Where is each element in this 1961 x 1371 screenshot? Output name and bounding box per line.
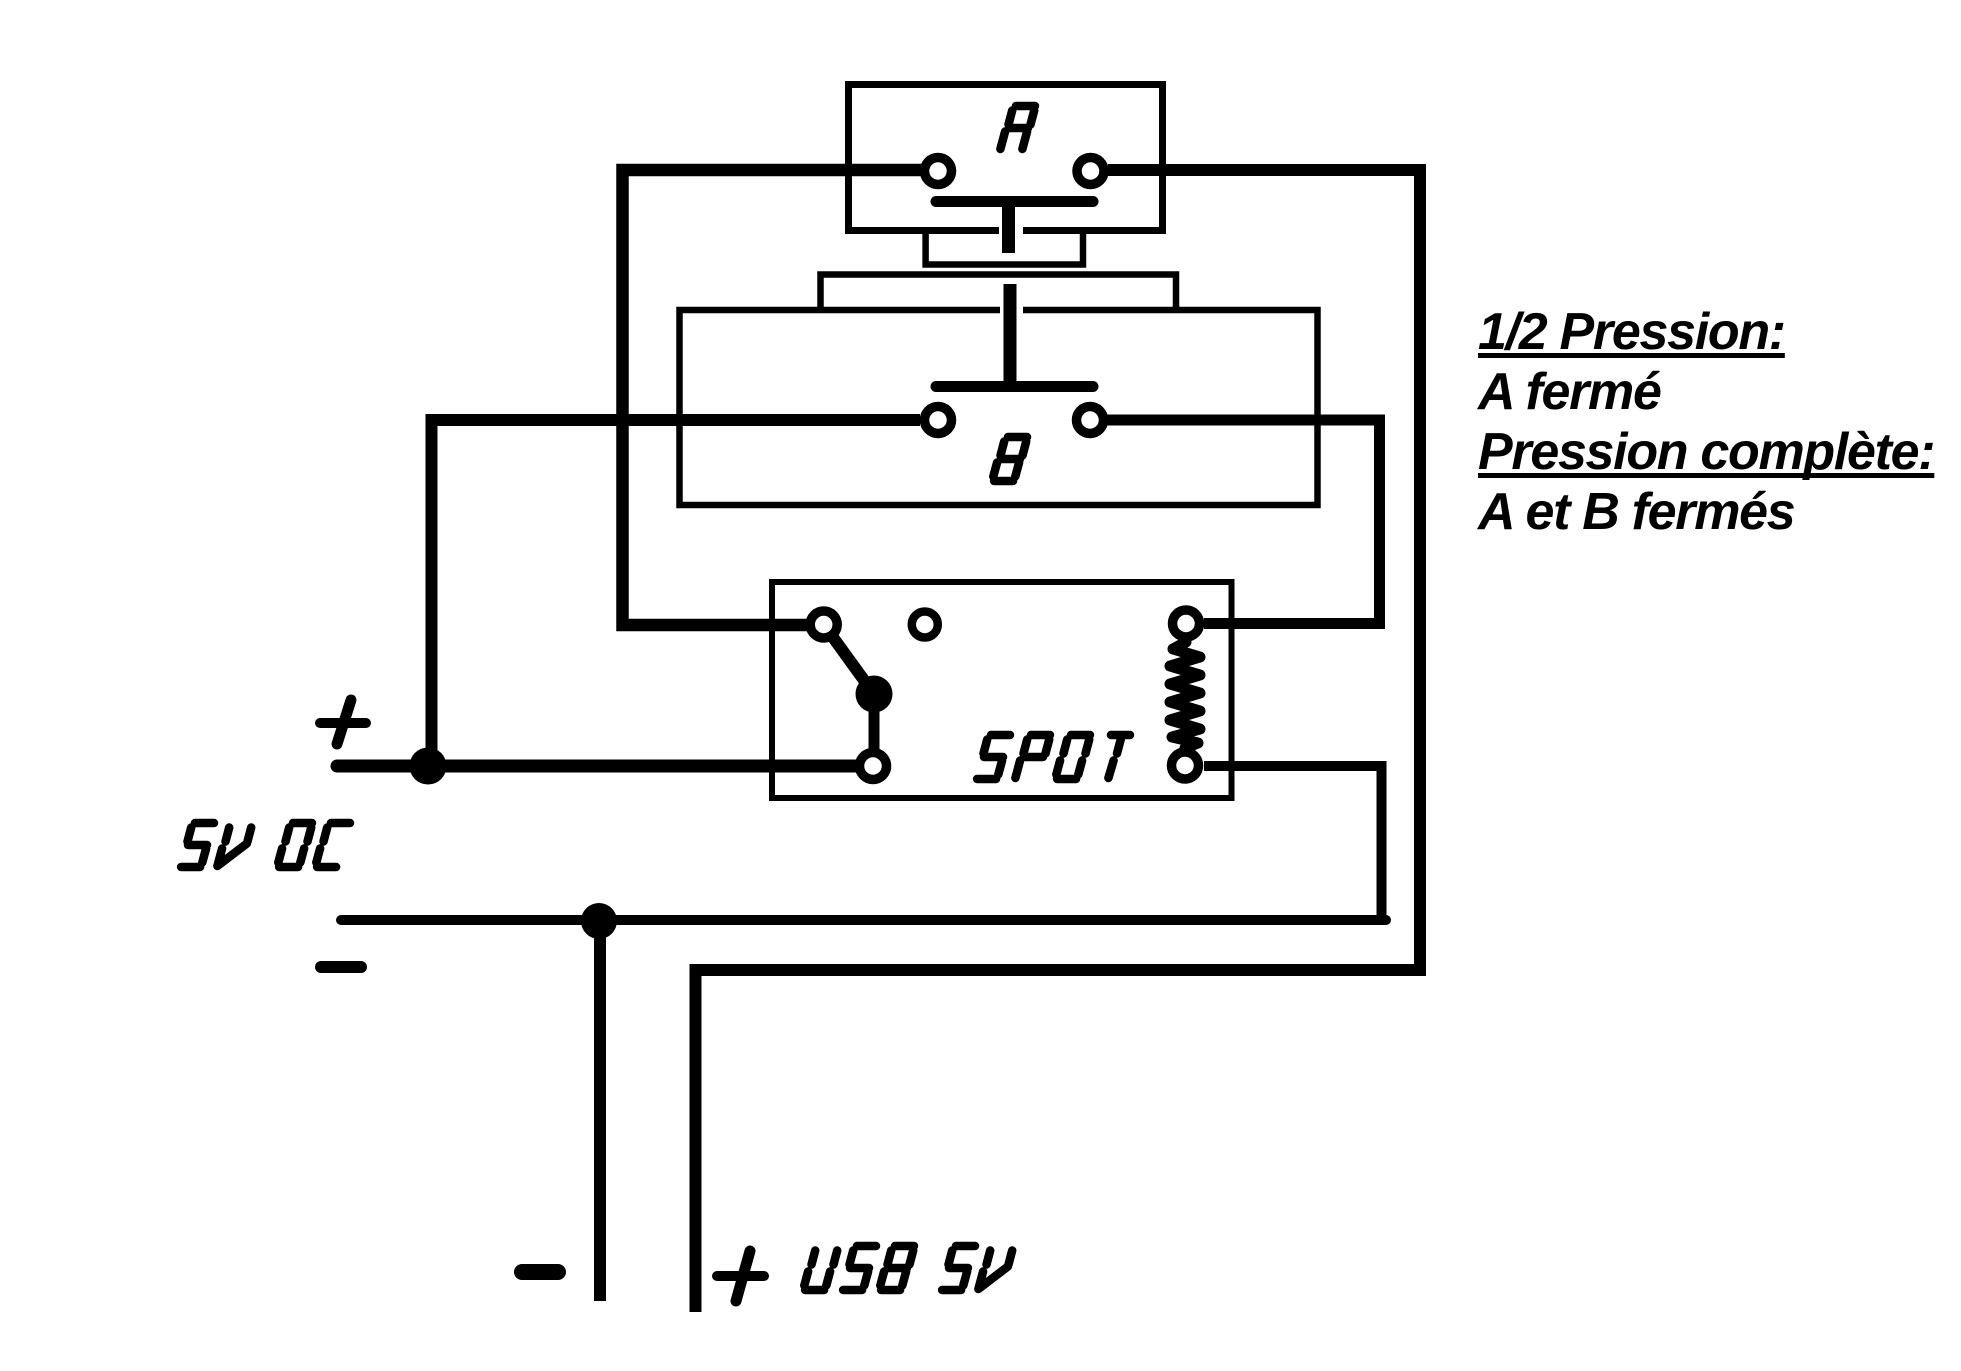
- switch B terminal left: [925, 407, 952, 434]
- relay coil terminal bottom: [1172, 752, 1199, 779]
- push-button switch B box: [680, 310, 1318, 505]
- wire: minus rail branch down to USB minus: [594, 920, 606, 1301]
- node: minus rail junction: [581, 903, 617, 939]
- wire: A left terminal to relay throw (left vertical): [623, 170, 922, 625]
- wire: relay coil bottom down to minus rail: [1204, 766, 1382, 925]
- relay arm pivot dot: [856, 676, 893, 713]
- relay throw terminal (NC, unconnected): [912, 612, 938, 638]
- relay switch arm: [824, 625, 874, 695]
- relay arm pivot link: [869, 694, 880, 766]
- wire: +5V supply to relay common: [337, 760, 856, 773]
- label USB 5V: [804, 1246, 1012, 1290]
- annotation text block: [1478, 302, 1934, 542]
- label + (5V DC): [320, 718, 366, 728]
- node: +5V junction: [410, 748, 447, 785]
- wire: B right terminal down to relay coil top: [1107, 420, 1380, 624]
- relay SPDT box: [772, 582, 1232, 798]
- switch A terminal right: [1077, 158, 1104, 185]
- switch B contact bar: [936, 381, 1093, 392]
- switch A plunger upper rectangle: [926, 232, 1083, 265]
- relay common terminal: [860, 753, 887, 780]
- relay coil winding: [1170, 642, 1200, 748]
- label B: [993, 437, 1027, 481]
- wire: B left terminal to + node vertical: [432, 420, 921, 766]
- label SPDT: [977, 735, 1130, 779]
- label A: [1000, 106, 1035, 149]
- relay coil terminal top: [1173, 610, 1200, 637]
- switch A contact bar: [936, 196, 1093, 207]
- switch B plunger lower rectangle: [821, 275, 1177, 309]
- label + (USB): [717, 1271, 764, 1281]
- wire: A right terminal down right side to USB +: [696, 170, 1421, 1312]
- switch A plunger stem: [1002, 205, 1015, 253]
- label 5V DC: [181, 823, 350, 867]
- wire: minus rail: [341, 915, 1386, 925]
- switch A terminal left: [925, 158, 952, 185]
- label minus (USB): [522, 1264, 558, 1280]
- switch B terminal right: [1077, 407, 1104, 434]
- label minus (5V DC): [321, 961, 361, 973]
- push-button switch A box: [849, 85, 1163, 231]
- switch B plunger stem: [1004, 284, 1017, 381]
- relay throw terminal (NO): [810, 611, 837, 638]
